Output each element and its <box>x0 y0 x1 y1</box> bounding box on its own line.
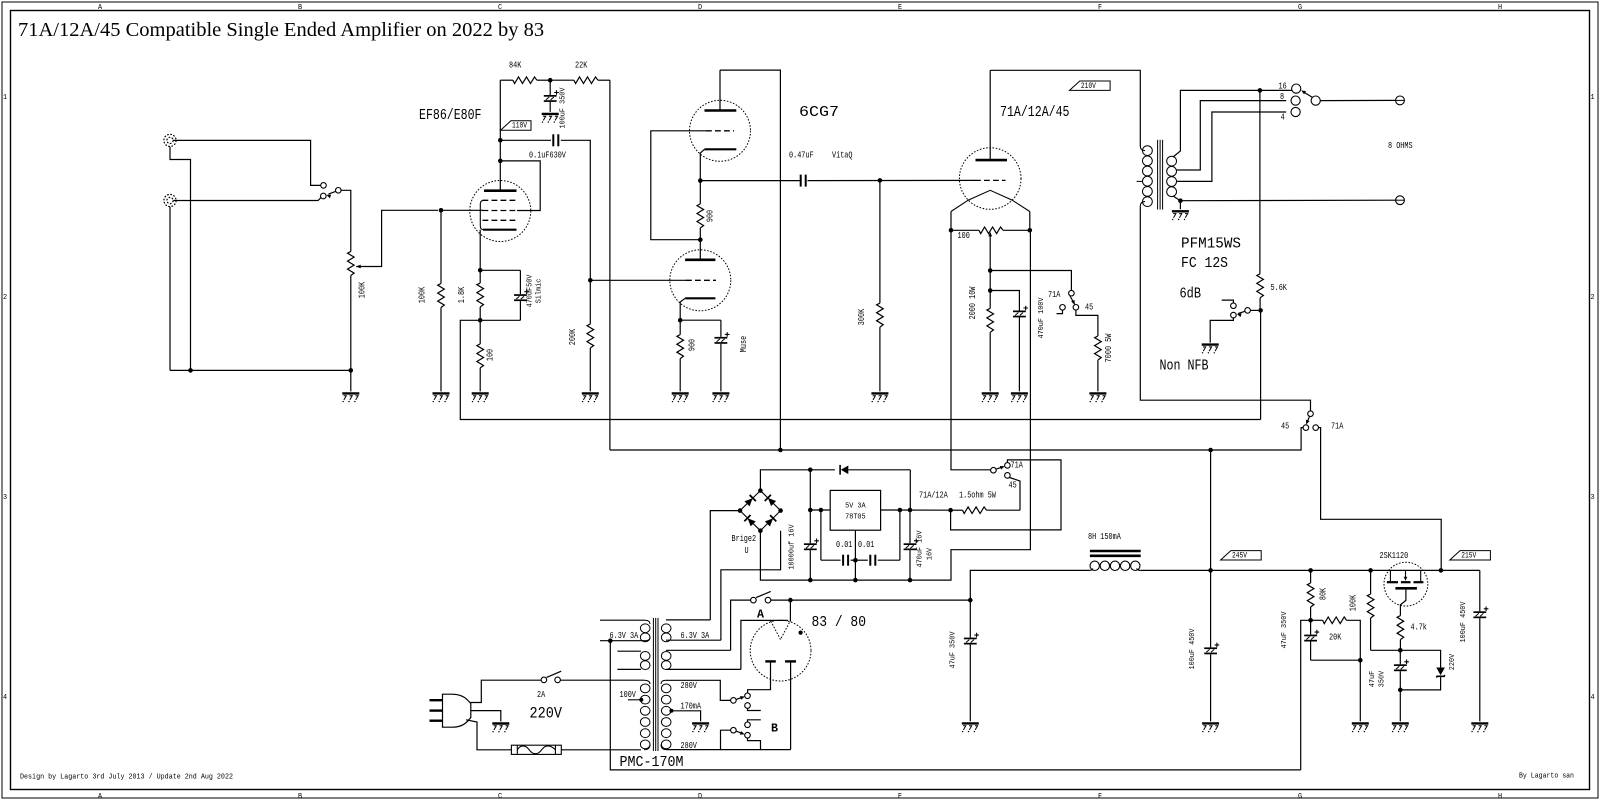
wire plug live <box>471 680 542 702</box>
svg-text:8H 150mA: 8H 150mA <box>1088 532 1121 542</box>
junction dot cathode network <box>988 288 993 293</box>
wire R1 bottom to bridge <box>721 531 781 641</box>
junction dot input bus right <box>349 368 354 373</box>
junction dot 001 mid <box>853 558 858 563</box>
svg-text:71A: 71A <box>1331 422 1344 432</box>
svg-text:470uF50V: 470uF50V <box>527 274 535 308</box>
PMC 6.3V winding L1 <box>600 619 645 621</box>
6CG7 upper grid <box>706 130 734 132</box>
ground 470uF 100V <box>1011 393 1028 402</box>
junction dot EF86 screen tap <box>498 159 503 164</box>
ground OPT secondary <box>1172 211 1189 220</box>
junction dot SRPP mid <box>698 237 703 242</box>
svg-text:H: H <box>1498 793 1502 800</box>
ground bus input <box>170 369 351 371</box>
junction dot regulator output node <box>948 508 953 513</box>
resistor 100K grid <box>440 210 442 283</box>
ground NFB switch <box>1202 345 1219 354</box>
svg-text:PFM15WS: PFM15WS <box>1181 236 1241 253</box>
svg-text:71A/12A/45: 71A/12A/45 <box>1000 104 1070 121</box>
resistor 7000 5W <box>1095 336 1102 360</box>
wire B lower contact <box>748 738 761 750</box>
wire J2 tip to selector <box>173 197 321 200</box>
diode regulator bypass <box>810 469 835 471</box>
switch 45/71A B+ select <box>1308 411 1314 417</box>
wire R2 bottom to filament <box>741 620 788 669</box>
resistor 300K grid leak <box>879 180 881 303</box>
capacitor 47uF 350V source <box>1399 650 1401 664</box>
capacitor 470uF50V Silmic <box>519 270 521 294</box>
tube 71A envelope <box>959 148 1021 210</box>
tap selector common <box>1311 96 1320 105</box>
wire to 470uF 100V <box>990 291 1019 311</box>
bridge diode NW <box>744 495 756 507</box>
83 plate left <box>765 660 776 662</box>
tube 6CG7 upper envelope <box>690 100 751 161</box>
input selector switch SW1 <box>321 183 327 189</box>
wire regulator output <box>881 509 951 511</box>
svg-text:D: D <box>698 793 702 800</box>
EF86 plate <box>484 189 517 192</box>
junction dot 80K top <box>1308 568 1313 573</box>
junction dot wiper switch tap <box>988 268 993 273</box>
zener 220V <box>1400 650 1440 667</box>
AC plug prongs <box>430 699 443 701</box>
junction dot SRPP output <box>698 178 703 183</box>
wire 71A plate to OPT <box>990 70 1140 146</box>
switch A rectifier <box>751 597 757 603</box>
capacitor 100uF 450V first <box>1210 570 1212 647</box>
svg-text:Silmic: Silmic <box>536 279 544 304</box>
volume pot wiper <box>356 265 361 269</box>
wire plate to coupling cap <box>500 139 551 141</box>
svg-text:71A/12A: 71A/12A <box>919 491 948 501</box>
71A grid <box>975 179 1006 181</box>
wire J2 sleeve <box>169 207 171 371</box>
junction dot secondary ground <box>1178 198 1183 203</box>
wire 71A B+ feed <box>1319 428 1442 571</box>
svg-text:350V: 350V <box>1378 670 1386 687</box>
wire 45 contact to 7000 <box>1076 310 1098 336</box>
junction dot source node <box>1398 648 1403 653</box>
svg-text:EF86/E80F: EF86/E80F <box>419 107 482 124</box>
junction dot raw DC node <box>968 598 973 603</box>
junction dot 83 filament feed <box>788 598 793 603</box>
svg-text:84K: 84K <box>509 61 522 71</box>
wire OPT return to switch <box>1140 206 1310 411</box>
wire minus rail <box>760 230 1030 580</box>
svg-text:100uF 450V: 100uF 450V <box>1460 601 1468 643</box>
resistor 22K decoupling <box>550 79 574 81</box>
6CG7 lower plate <box>685 258 715 261</box>
svg-text:B: B <box>298 4 302 12</box>
wire 6CG7 plate top rail <box>720 70 780 450</box>
OPT secondary winding <box>1167 156 1177 166</box>
wire B+ front line <box>610 428 1303 450</box>
resistor 900 SRPP <box>699 181 701 204</box>
svg-text:280V: 280V <box>681 681 698 691</box>
capacitor Muse <box>720 320 722 337</box>
bridge diode NE <box>765 495 777 507</box>
svg-text:220V: 220V <box>1449 653 1457 670</box>
wire raw DC to choke <box>970 570 1090 600</box>
flag 215V <box>1450 551 1491 561</box>
EF86 g1 grid <box>483 219 518 221</box>
svg-text:16V: 16V <box>927 547 935 560</box>
output jack return <box>1396 196 1405 205</box>
svg-text:71A: 71A <box>1011 461 1024 471</box>
input jack J2 <box>164 194 176 206</box>
EF86 cathode <box>483 229 517 231</box>
svg-text:PMC-170M: PMC-170M <box>620 754 684 771</box>
wire divider to bottom rail <box>1301 620 1311 770</box>
ground 100K grid <box>433 393 450 402</box>
svg-text:0.1uF630V: 0.1uF630V <box>529 151 566 161</box>
svg-text:0.01: 0.01 <box>858 540 874 550</box>
wire regulator input <box>809 470 811 510</box>
71A plate <box>976 159 1008 162</box>
wire cap to 71A grid <box>808 179 976 181</box>
ground 7000 5W <box>1089 393 1106 402</box>
fuse <box>511 745 561 754</box>
svg-text:Brige2: Brige2 <box>732 534 757 544</box>
ground source cap <box>1392 723 1409 732</box>
svg-text:1: 1 <box>3 94 7 102</box>
svg-text:2SK1120: 2SK1120 <box>1380 551 1409 561</box>
wire heater return rail <box>610 641 1300 770</box>
svg-text:16: 16 <box>1279 81 1287 91</box>
junction dot 245V node <box>1208 568 1213 573</box>
ground input bus <box>342 393 359 402</box>
ground AC plug <box>492 724 509 733</box>
junction dot divider bottom <box>1358 658 1363 663</box>
svg-text:100K: 100K <box>1348 594 1358 611</box>
tap terminal 16 <box>1292 84 1301 93</box>
junction dot zener bottom <box>1398 688 1403 693</box>
svg-text:C: C <box>498 4 502 12</box>
wire filament left leg <box>950 212 952 231</box>
svg-text:7000 5W: 7000 5W <box>1104 333 1114 362</box>
svg-text:100K: 100K <box>418 286 428 303</box>
svg-text:100V: 100V <box>620 690 637 700</box>
svg-text:4: 4 <box>1590 694 1594 702</box>
wire left plate to A2 switch <box>748 661 771 693</box>
svg-text:71A: 71A <box>1048 290 1061 300</box>
wire NFB to cathode <box>460 320 1260 419</box>
svg-text:170mA: 170mA <box>681 702 702 712</box>
tube 6CG7 lower envelope <box>670 250 731 311</box>
svg-text:B: B <box>771 722 778 736</box>
capacitor 0.01 left <box>820 510 822 560</box>
wire plug neutral <box>466 720 511 750</box>
svg-text:2A: 2A <box>537 690 546 700</box>
svg-text:6CG7: 6CG7 <box>799 104 839 121</box>
regulator ground pin <box>854 530 856 580</box>
wire 45 filament contact <box>1010 478 1021 511</box>
OPT core <box>1157 140 1159 210</box>
wire B common <box>721 730 731 749</box>
svg-text:FC 12S: FC 12S <box>1181 255 1228 272</box>
6CG7 upper cathode <box>705 148 737 150</box>
choke 8H 150mA winding <box>1090 561 1099 570</box>
PMC winding R2 <box>666 649 731 651</box>
2SK1120 gate drop left <box>1389 570 1391 581</box>
wire diode to output node <box>909 470 911 510</box>
wire filament right leg <box>1029 212 1031 231</box>
wire 22K down to B+ line <box>609 80 611 450</box>
EF86 g3 grid <box>483 199 518 201</box>
ground 100uF first <box>1202 723 1219 732</box>
hum pot wiper <box>988 232 992 237</box>
capacitor 47uF 350V reservoir <box>969 600 971 638</box>
output jack hot <box>1396 96 1405 105</box>
tube EF86 envelope <box>470 181 531 242</box>
switch B rectifier <box>731 727 737 733</box>
svg-text:300K: 300K <box>857 308 867 325</box>
svg-text:470uF 100V: 470uF 100V <box>1038 297 1046 339</box>
svg-text:80K: 80K <box>1318 587 1328 600</box>
6CG7 lower cathode <box>685 297 715 299</box>
junction dot bridge top <box>758 488 763 493</box>
junction dot EF86 cathode <box>478 268 483 273</box>
svg-text:C: C <box>498 793 502 800</box>
wire fuse to primary <box>561 749 641 751</box>
6CG7 upper plate <box>705 109 737 112</box>
wire HV bottom to filament return <box>666 749 791 751</box>
svg-text:E: E <box>898 4 902 12</box>
wire secondary 16 tap <box>1173 90 1292 157</box>
junction dot diode line <box>808 468 813 473</box>
svg-text:2: 2 <box>1590 294 1594 302</box>
tap terminal 4 <box>1291 107 1300 116</box>
wire 6CG7 upper cathode lead <box>700 149 704 180</box>
junction dot hum pot left <box>949 228 954 233</box>
flag 245V <box>1221 551 1262 561</box>
wire choke to 245V rail <box>1141 569 1211 571</box>
junction dot NFB takeoff <box>1258 88 1263 93</box>
junction dot 001 input side <box>819 508 824 513</box>
capacitor 0.01 right <box>855 559 867 561</box>
wire R2 top to A switch <box>731 600 751 650</box>
wire R1 top to bridge <box>710 511 740 620</box>
wire 16 tap to 5.6K <box>1259 90 1261 273</box>
wire bus to ground <box>350 370 352 391</box>
svg-text:4.7k: 4.7k <box>1411 623 1427 633</box>
wire cathode to Muse cap <box>680 319 721 321</box>
svg-text:8 OHMS: 8 OHMS <box>1388 141 1413 151</box>
resistor 1.5ohm 5W <box>951 509 963 511</box>
capacitor 470uF 100V <box>1013 306 1028 318</box>
ground 200K <box>582 393 599 402</box>
svg-text:47uF 350V: 47uF 350V <box>1281 611 1289 649</box>
svg-text:100: 100 <box>486 349 496 361</box>
transistor 2SK1120 <box>1384 562 1428 606</box>
svg-text:E: E <box>898 793 902 800</box>
resistor 100 cathode <box>479 320 481 344</box>
switch 71A/45 filament <box>991 467 997 473</box>
svg-text:D: D <box>698 4 702 12</box>
switch 71A/45 cathode <box>1069 290 1075 296</box>
svg-text:22K: 22K <box>575 61 588 71</box>
wire plug earth <box>471 711 501 722</box>
resistor 5.6K NFB <box>1257 274 1264 298</box>
svg-text:100K: 100K <box>358 281 368 298</box>
wire J1 sleeve <box>170 147 191 371</box>
PMC HV secondary <box>661 680 666 684</box>
svg-text:G: G <box>1298 793 1302 800</box>
junction dot input bus left <box>188 368 193 373</box>
ground divider <box>1352 723 1369 732</box>
ground 900 cathode <box>672 393 689 402</box>
choke 8H 150mA core <box>1090 550 1141 553</box>
svg-text:3: 3 <box>3 494 7 502</box>
svg-text:Design by Lagarto 3rd July 201: Design by Lagarto 3rd July 2013 / Update… <box>20 774 233 782</box>
EF86 g2 grid <box>483 210 518 212</box>
svg-text:220V: 220V <box>530 705 563 723</box>
svg-text:Muse: Muse <box>739 336 749 352</box>
junction dot 6CG7 cathode <box>678 318 683 323</box>
svg-text:47uF: 47uF <box>1369 671 1377 687</box>
svg-text:83 / 80: 83 / 80 <box>812 614 867 631</box>
svg-text:100uF 350V: 100uF 350V <box>560 87 568 129</box>
svg-text:5V 3A: 5V 3A <box>845 503 866 511</box>
junction dot 71A grid node <box>878 178 883 183</box>
switch NFB <box>1245 308 1251 314</box>
svg-text:1.5ohm 5W: 1.5ohm 5W <box>959 491 996 501</box>
ground 2000 10W <box>982 393 999 402</box>
capacitor 10000uf 16V <box>809 510 811 543</box>
wire secondary to ground <box>1179 201 1181 210</box>
resistor 80K <box>1310 570 1312 583</box>
wire NFB ground contact <box>1210 318 1233 343</box>
resistor 900 cathode <box>679 320 681 334</box>
tap terminal 8 <box>1291 96 1300 105</box>
junction dot B+ out <box>1439 568 1444 573</box>
svg-text:6.3V 3A: 6.3V 3A <box>610 631 639 641</box>
svg-text:By Lagarto san: By Lagarto san <box>1519 773 1574 781</box>
wire B+ rail <box>1211 569 1480 571</box>
junction dot cathode NFB node <box>478 318 483 323</box>
junction dot EF86 grid <box>439 208 444 213</box>
junction dot 001 output side <box>898 508 903 513</box>
wire wiper to cathode switch <box>990 271 1071 291</box>
OPT primary winding <box>1140 146 1145 151</box>
wire 6CG7 lower cathode lead <box>680 298 685 320</box>
wire secondary 4 tap <box>1177 112 1287 181</box>
primary 100V tap <box>639 698 643 702</box>
OPT primary tap stub <box>1137 180 1143 182</box>
svg-text:U: U <box>745 546 749 556</box>
svg-text:78T05: 78T05 <box>845 514 866 522</box>
flag 210V <box>1070 81 1111 91</box>
junction dot bridge right <box>778 508 783 513</box>
2SK1120 drain drop right <box>1420 570 1422 581</box>
svg-text:210V: 210V <box>1081 81 1097 91</box>
PMC primary winding <box>644 680 650 684</box>
svg-text:A: A <box>757 608 765 622</box>
svg-text:6dB: 6dB <box>1180 286 1202 303</box>
ground 300K <box>871 393 888 402</box>
svg-text:5.6K: 5.6K <box>1271 283 1288 293</box>
83 getter dot <box>799 631 803 635</box>
wire NFB node down <box>1260 310 1262 419</box>
junction dot output 470uF <box>908 508 913 513</box>
capacitor 0.47uF VitaQ <box>800 175 802 187</box>
input jack J1 <box>164 134 176 146</box>
wire bridge plus to regulator <box>760 470 810 491</box>
regulator 78T05 box <box>830 490 880 530</box>
junction dot 80K bottom <box>1308 618 1313 623</box>
capacitor 0.1uF630V <box>552 134 554 146</box>
svg-text:100: 100 <box>958 231 970 241</box>
svg-text:0.01: 0.01 <box>836 540 852 550</box>
EF86 g3-cathode strap <box>480 200 484 229</box>
PMC 6.3V winding R1 <box>666 619 710 621</box>
bridge diode SW <box>744 515 756 527</box>
svg-text:6.3V 3A: 6.3V 3A <box>681 631 710 641</box>
2SK1120 middle arrow <box>1405 570 1407 577</box>
ground 100uF 350V <box>542 114 559 123</box>
svg-text:900: 900 <box>688 339 698 351</box>
stub B upper contact <box>748 720 761 722</box>
junction dot bridge bottom <box>758 528 763 533</box>
svg-text:Non NFB: Non NFB <box>1160 358 1209 375</box>
tube 83/80 envelope <box>750 620 811 681</box>
svg-text:2000 10W: 2000 10W <box>968 286 978 319</box>
hum pot 100 <box>951 229 979 231</box>
bridge rectifier Brige2 diamond <box>740 491 781 531</box>
svg-text:H: H <box>1498 4 1502 12</box>
wire right plate down <box>790 661 792 749</box>
wire 245V riser <box>1210 450 1212 570</box>
junction dot bridge left <box>738 508 743 513</box>
2SK1120 top bars <box>1387 581 1398 583</box>
PMC core <box>652 618 654 751</box>
resistor 2000 10W <box>989 291 991 309</box>
svg-text:3: 3 <box>1590 494 1594 502</box>
resistor 1.8K cathode <box>479 270 481 283</box>
svg-text:4: 4 <box>1281 113 1285 123</box>
svg-text:47uF 350V: 47uF 350V <box>950 631 958 669</box>
wire secondary return <box>1173 196 1180 201</box>
junction dot reservoir minus <box>808 578 813 583</box>
HV center tap <box>669 709 673 713</box>
switch 2A mains <box>541 677 547 683</box>
wire A switch to filament node <box>771 599 971 601</box>
83 plate right <box>785 660 796 662</box>
resistor 20K <box>1311 619 1323 621</box>
svg-text:10000uf 16V: 10000uf 16V <box>789 524 797 570</box>
svg-text:200K: 200K <box>568 328 578 345</box>
resistor 84K plate <box>500 79 513 81</box>
ground HV center tap <box>692 723 709 732</box>
wire grid to EF86 <box>441 209 483 211</box>
svg-text:A: A <box>98 793 103 800</box>
wire 71A filament contact <box>951 460 1061 530</box>
tap selector arm <box>1302 91 1312 97</box>
wire source cap ground <box>1399 690 1401 722</box>
switch A2 rectifier upper <box>731 698 737 704</box>
wire mains switch to primary <box>560 679 644 681</box>
ground 47uF reservoir <box>962 723 979 732</box>
wire cathode to bypass cap <box>480 269 520 271</box>
junction dot regulator input <box>808 508 813 513</box>
junction dot NFB node <box>1258 308 1263 313</box>
wire coupling cap to 6CG7 grid <box>561 140 591 280</box>
bridge diode SE <box>764 515 776 527</box>
2SK1120 source lead <box>1400 588 1406 615</box>
stub NFB off contact <box>1222 300 1234 303</box>
